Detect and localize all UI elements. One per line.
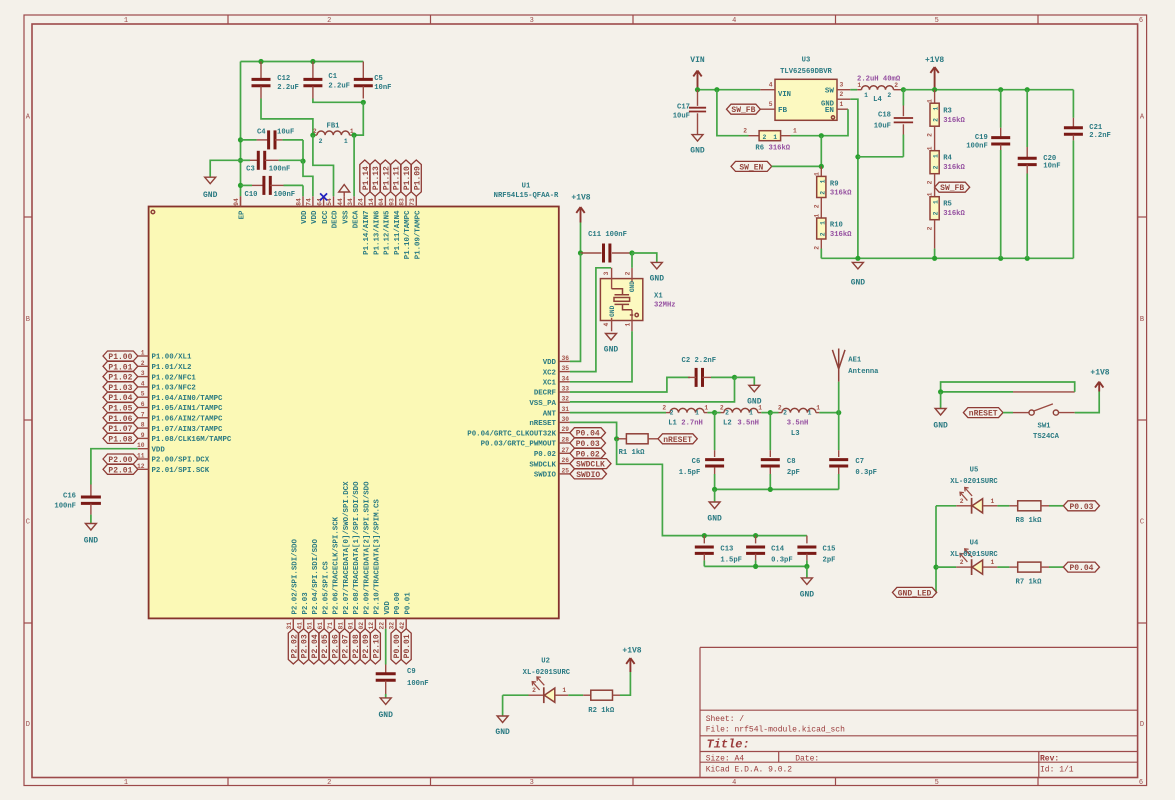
capacitor C11 (581, 231, 633, 263)
svg-text:SW: SW (825, 87, 835, 95)
svg-text:1: 1 (933, 107, 940, 111)
svg-text:P1.14/AIN7: P1.14/AIN7 (363, 211, 371, 255)
svg-text:P1.03: P1.03 (108, 384, 132, 393)
global label P1.05 (103, 403, 138, 414)
svg-text:GND: GND (690, 147, 705, 156)
svg-text:SWDIO: SWDIO (534, 472, 557, 480)
resistor R9 (813, 166, 852, 208)
wire VDD pin10 to C16 (91, 449, 138, 485)
global label P0.01 (401, 629, 412, 664)
svg-text:C7: C7 (855, 458, 864, 466)
svg-text:5: 5 (769, 101, 773, 108)
wire +1V8 down to C11 (580, 223, 582, 254)
wire R6 to EN (791, 109, 849, 136)
U1 pin 28 P0.03/GRTC_PWMOUT (481, 437, 570, 449)
svg-text:R8 1kΩ: R8 1kΩ (1016, 517, 1043, 525)
U1 pin 25 SWDIO (534, 467, 570, 479)
svg-text:1: 1 (773, 134, 777, 141)
svg-text:33: 33 (562, 386, 570, 393)
svg-text:SWDCLK: SWDCLK (529, 461, 556, 469)
U1 pin 8 P1.07/AIN3/TAMPC (138, 422, 223, 434)
svg-text:D: D (1140, 721, 1144, 729)
wire EN node down to SW_EN (820, 136, 822, 167)
svg-text:XL-0201SURC: XL-0201SURC (950, 478, 998, 486)
wire VSS_PA (570, 377, 735, 402)
capacitor C18 (874, 90, 913, 157)
svg-text:54: 54 (326, 198, 333, 206)
global label nRESET (SW1) (963, 408, 1003, 419)
wire FB1 pin2 to pin45 DECD (313, 135, 334, 196)
svg-text:P0.01: P0.01 (404, 592, 412, 615)
svg-text:10uF: 10uF (673, 112, 690, 120)
svg-text:1: 1 (808, 410, 812, 417)
svg-text:4: 4 (141, 380, 145, 387)
ground label (C17) (690, 147, 705, 156)
junction R3 top (932, 87, 937, 92)
wire R10 to gnd rail (820, 239, 822, 258)
global label SWDCLK (570, 459, 611, 470)
ground symbol (filter) (709, 502, 720, 509)
wire C5 bottom to FB1 pin1 (354, 102, 363, 135)
U1 pin 39 P1.11/AIN4 (top) (388, 196, 402, 255)
U1 pin 18 P2.07/TRACEDATA[0]/SWO/SPI.DCX (bottom) (337, 481, 351, 630)
junction R1 node (614, 436, 619, 441)
global label P0.04 (570, 428, 606, 439)
svg-text:FB1: FB1 (327, 123, 341, 131)
junction U4 row (933, 565, 938, 570)
svg-text:A: A (1140, 114, 1145, 122)
svg-text:100nF: 100nF (966, 142, 988, 150)
svg-text:2: 2 (960, 559, 964, 566)
svg-text:X1: X1 (654, 293, 663, 301)
svg-text:GND_LED: GND_LED (898, 589, 932, 598)
wire SW1 to +1V8 (1075, 392, 1100, 413)
ground symbol (SW1) (935, 409, 946, 416)
wire VDD pin22 to C9 (385, 629, 387, 665)
svg-text:GND: GND (650, 275, 665, 284)
wire crystal pin2 up (631, 253, 633, 268)
svg-text:P2.02: P2.02 (290, 634, 299, 658)
led U4 (936, 549, 997, 575)
svg-text:P0.02: P0.02 (534, 451, 556, 459)
svg-text:0.3pF: 0.3pF (855, 469, 877, 477)
svg-text:P1.09/TAMPC: P1.09/TAMPC (415, 210, 423, 259)
U1 pin 45 DECD (top) (326, 196, 340, 228)
U1 pin 42 P1.14/AIN7 (top) (358, 196, 372, 255)
global label SW_FB (U3) (727, 104, 761, 115)
junction VIN R6 branch (714, 87, 719, 92)
svg-text:81: 81 (337, 622, 344, 630)
wire C6 top (714, 413, 716, 451)
svg-text:P0.04/GRTC_CLKOUT32K: P0.04/GRTC_CLKOUT32K (467, 430, 556, 438)
capacitor C19 (966, 90, 1010, 259)
svg-text:36: 36 (562, 355, 570, 362)
svg-text:File: nrf54l-module.kicad_sch: File: nrf54l-module.kicad_sch (706, 726, 845, 735)
svg-text:24: 24 (358, 198, 365, 206)
capacitor C6 (679, 450, 724, 489)
svg-text:R4: R4 (943, 155, 952, 163)
svg-text:71: 71 (327, 622, 334, 630)
U1 pin 4 P1.03/NFC2 (138, 380, 196, 392)
junction C2 right (732, 375, 737, 380)
capacitor C10 (241, 176, 304, 199)
svg-text:41: 41 (296, 622, 303, 630)
global label P0.00 (391, 629, 402, 664)
svg-text:TLV62569DBVR: TLV62569DBVR (780, 68, 832, 76)
svg-text:1.5pF: 1.5pF (679, 469, 701, 477)
global label P0.03 (570, 438, 606, 449)
ic U3 reference (802, 57, 811, 65)
inductor L2 (715, 405, 771, 428)
svg-text:6: 6 (141, 401, 145, 408)
junction C3 C4 node (300, 159, 305, 164)
U1 pin 9 P1.08/CLK16M/TAMPC (138, 432, 232, 444)
U1 pin 13 P2.02/SPI.SDI/SDO (bottom) (286, 539, 300, 630)
svg-text:2: 2 (778, 405, 782, 412)
global label P1.11 (391, 160, 402, 196)
svg-text:C13: C13 (720, 545, 733, 553)
global label SWDIO (570, 469, 607, 480)
svg-text:P0.04: P0.04 (1069, 564, 1093, 573)
svg-text:316kΩ: 316kΩ (943, 117, 965, 125)
svg-text:3: 3 (840, 82, 844, 89)
U1 pin 31 ANT (543, 406, 570, 418)
svg-text:P1.06/AIN2/TAMPC: P1.06/AIN2/TAMPC (152, 416, 224, 424)
junction gnd tap supply (855, 256, 860, 261)
svg-text:91: 91 (348, 622, 355, 630)
svg-text:R1 1kΩ: R1 1kΩ (619, 449, 646, 457)
svg-text:DCC: DCC (322, 210, 330, 224)
svg-text:P1.07/AIN3/TAMPC: P1.07/AIN3/TAMPC (152, 426, 224, 434)
U1 pin 12 P2.01/SPI.SCK (137, 463, 210, 475)
svg-text:U3: U3 (802, 57, 811, 65)
junction C19 gnd (998, 256, 1003, 261)
svg-text:P2.07/TRACEDATA[0]/SWO/SPI.DCX: P2.07/TRACEDATA[0]/SWO/SPI.DCX (343, 481, 351, 615)
resistor R3 (927, 90, 966, 137)
svg-text:316kΩ: 316kΩ (943, 164, 965, 172)
U1 pin 48 VDD (top) (296, 196, 310, 224)
svg-text:1: 1 (864, 92, 868, 99)
ground label (X1) (604, 346, 619, 355)
svg-text:EN: EN (825, 107, 835, 115)
svg-text:DECD: DECD (332, 210, 340, 228)
svg-text:GND: GND (629, 281, 636, 292)
wire SW1 top loop (941, 382, 1075, 392)
ground symbol (U2) (497, 716, 508, 723)
U3 pin 4 VIN stub (760, 82, 775, 90)
svg-text:TS24CA: TS24CA (1033, 433, 1060, 441)
power symbol VIN (690, 56, 705, 90)
svg-text:P0.03/GRTC_PWMOUT: P0.03/GRTC_PWMOUT (481, 441, 557, 449)
led U4 reference (970, 540, 979, 548)
U1 pin 36 VDD (543, 355, 570, 367)
svg-text:GND: GND (851, 279, 866, 288)
svg-text:SWDIO: SWDIO (576, 471, 600, 480)
svg-text:22: 22 (378, 622, 385, 630)
svg-text:04: 04 (378, 198, 385, 206)
wire supply gnd rail (821, 257, 1073, 259)
svg-text:P1.02/NFC1: P1.02/NFC1 (152, 374, 197, 382)
junction C18 gnd row (855, 154, 860, 159)
junction C19 top (998, 87, 1003, 92)
svg-text:P1.01: P1.01 (108, 363, 132, 372)
wire C3C4 to pin47 VDD (303, 161, 313, 196)
svg-text:P2.04: P2.04 (311, 634, 320, 658)
svg-text:2.2uH 40mΩ: 2.2uH 40mΩ (857, 75, 901, 83)
U1 pin 17 P2.06/TRACECLK/SPI.SCK (bottom) (327, 516, 341, 629)
svg-text:VIN: VIN (690, 56, 705, 65)
svg-text:100nF: 100nF (269, 166, 291, 174)
wire C9 to gnd (385, 694, 387, 698)
wire C18 bottom link (858, 156, 904, 158)
U1 pin 3 P1.02/NFC1 (138, 370, 197, 382)
capacitor C17 (673, 90, 706, 135)
svg-text:R10: R10 (830, 222, 843, 230)
ic U1 reference (522, 183, 531, 191)
wire gnd tap load caps (806, 566, 808, 578)
svg-text:2: 2 (783, 410, 787, 417)
U1 pin 16 P2.05/SPI.CS (bottom) (317, 561, 331, 630)
svg-text:1: 1 (124, 779, 128, 787)
global label P1.12 (380, 160, 391, 196)
svg-text:C10: C10 (245, 191, 258, 199)
wire GND top rail (241, 61, 364, 63)
global label P2.08 (350, 629, 361, 664)
wire load caps gnd rail (704, 565, 807, 567)
capacitor C5 (354, 62, 392, 99)
svg-text:0.3pF: 0.3pF (771, 557, 793, 565)
svg-text:GND: GND (84, 537, 99, 546)
ground label (supply) (851, 279, 866, 288)
junction C10 row (238, 183, 243, 188)
global label P1.13 (370, 160, 381, 196)
svg-text:P1.03/NFC2: P1.03/NFC2 (152, 385, 196, 393)
svg-text:1: 1 (749, 410, 753, 417)
svg-text:28: 28 (562, 437, 570, 444)
U1 pin 43 DECA (top) (347, 196, 361, 228)
ground label (top-left) (203, 191, 218, 200)
wire C4 right down (302, 140, 304, 161)
global label P1.01 (103, 361, 138, 372)
svg-text:93: 93 (388, 198, 395, 206)
svg-text:GND: GND (495, 728, 510, 737)
U1 pin 34 XC1 (543, 375, 570, 387)
svg-text:C19: C19 (975, 134, 988, 142)
svg-text:2: 2 (840, 91, 844, 98)
global label P2.06 (329, 629, 340, 664)
svg-text:XC2: XC2 (543, 369, 556, 377)
resistor R7 (997, 562, 1063, 586)
svg-text:100nF: 100nF (407, 680, 429, 688)
U1 pin 2 P1.01/XL2 (138, 360, 192, 372)
wire SW1 gnd (940, 392, 942, 409)
wire R5 to gnd rail (934, 220, 936, 259)
svg-text:C3: C3 (246, 166, 255, 174)
svg-text:1: 1 (819, 221, 826, 225)
svg-text:2: 2 (532, 687, 536, 694)
svg-text:84: 84 (296, 198, 303, 206)
svg-text:+1V8: +1V8 (622, 647, 641, 656)
title block (700, 647, 1138, 777)
svg-text:P0.00: P0.00 (394, 592, 402, 615)
svg-text:1: 1 (695, 410, 699, 417)
svg-text:1: 1 (562, 687, 566, 694)
svg-text:30: 30 (562, 416, 570, 423)
junction C13 top (702, 533, 707, 538)
svg-text:6: 6 (1139, 779, 1143, 787)
svg-text:12: 12 (368, 622, 375, 630)
svg-text:XL-0201SURC: XL-0201SURC (523, 669, 571, 677)
svg-text:GND: GND (604, 346, 619, 355)
svg-text:VDD: VDD (311, 210, 319, 224)
ground label (load caps) (800, 590, 815, 599)
svg-text:31: 31 (286, 622, 293, 630)
svg-text:2: 2 (624, 271, 631, 275)
svg-text:P1.09: P1.09 (413, 166, 422, 190)
svg-text:VIN: VIN (778, 91, 791, 99)
svg-text:4: 4 (732, 17, 736, 25)
ground label (filter) (707, 515, 722, 524)
junction C5 bottom (361, 100, 366, 105)
U1 pin 22 VDD (bottom) (378, 601, 392, 630)
ic U1 body NRF54L15-QFAA-R (149, 207, 559, 619)
inductor L1 (662, 405, 714, 428)
ground symbol (C16) (85, 524, 96, 531)
crystal X1 value (654, 302, 676, 310)
U1 pin 11 P2.00/SPI.DCX (137, 453, 210, 465)
svg-text:1: 1 (840, 101, 844, 108)
svg-text:L4: L4 (873, 96, 882, 104)
crystal X1 body (600, 268, 642, 332)
svg-text:4: 4 (769, 82, 773, 89)
svg-text:P2.08: P2.08 (352, 634, 361, 658)
svg-text:2: 2 (319, 138, 323, 145)
junction L4 out (901, 87, 906, 92)
svg-text:1: 1 (927, 99, 934, 103)
junction C6 gnd (712, 487, 717, 492)
capacitor C14 (746, 536, 793, 567)
global label GND_LED (892, 587, 936, 598)
svg-text:1: 1 (819, 179, 826, 183)
ground symbol (X1 pin4) (606, 334, 617, 341)
svg-text:C: C (1140, 519, 1144, 527)
U1 pin 19 P2.08/TRACEDATA[1]/SPI.SDI/SDO (bottom) (348, 481, 362, 630)
svg-text:SW_FB: SW_FB (940, 184, 964, 193)
svg-text:9: 9 (141, 432, 145, 439)
svg-text:+1V8: +1V8 (925, 56, 944, 65)
svg-text:VDD: VDD (152, 446, 166, 454)
svg-text:+1V8: +1V8 (571, 194, 590, 203)
svg-text:P1.01/XL2: P1.01/XL2 (152, 364, 192, 372)
svg-text:VSS: VSS (342, 210, 350, 224)
U1 pin 37 P1.09/TAMPC (top) (409, 196, 423, 259)
svg-text:316kΩ: 316kΩ (830, 189, 852, 197)
svg-text:2: 2 (743, 128, 747, 135)
svg-text:27: 27 (562, 447, 570, 454)
led U5 value (950, 478, 998, 486)
ground label (C9) (378, 711, 393, 720)
wire SW_EN to R9 (772, 165, 822, 167)
led U5 (936, 488, 997, 514)
junction SW_EN R9 (819, 164, 824, 169)
capacitor C2 (682, 357, 735, 387)
global label P1.03 (103, 382, 138, 393)
antenna AE1 value (848, 368, 879, 376)
capacitor C9 (376, 665, 429, 695)
svg-text:P0.02: P0.02 (576, 450, 600, 459)
ground symbol (C11) (651, 262, 662, 269)
svg-text:P2.09/TRACEDATA[2]/SPI.SDI/SDO: P2.09/TRACEDATA[2]/SPI.SDI/SDO (363, 481, 371, 615)
svg-text:10: 10 (137, 442, 145, 449)
svg-text:74: 74 (306, 198, 313, 206)
antenna AE1 (832, 349, 845, 382)
svg-text:73: 73 (409, 198, 416, 206)
svg-text:P1.11/AIN4: P1.11/AIN4 (394, 210, 402, 255)
svg-text:Rev:: Rev: (1040, 755, 1059, 764)
svg-text:Date:: Date: (795, 755, 819, 764)
svg-text:nRESET: nRESET (969, 410, 998, 419)
junction C8 gnd (768, 487, 773, 492)
svg-text:Antenna: Antenna (848, 368, 879, 376)
U1 pin 41 P1.13/AIN6 (top) (368, 196, 382, 255)
svg-text:2.2nF: 2.2nF (1089, 132, 1111, 140)
svg-text:3: 3 (603, 271, 610, 275)
svg-text:35: 35 (562, 365, 570, 372)
junction R5 gnd (932, 256, 937, 261)
global label P2.02 (288, 629, 299, 664)
svg-text:KiCad E.D.A. 9.0.2: KiCad E.D.A. 9.0.2 (706, 766, 793, 775)
capacitor C15 (797, 536, 835, 567)
svg-text:GND: GND (203, 191, 218, 200)
svg-text:34: 34 (562, 375, 570, 382)
svg-text:D: D (26, 721, 30, 729)
wire C7 top (838, 413, 840, 451)
svg-text:100nF: 100nF (274, 191, 296, 199)
wire C16 to gnd (90, 515, 92, 524)
svg-text:2: 2 (327, 17, 331, 25)
global label P2.01 (103, 464, 138, 475)
junction C1 top (310, 59, 315, 64)
svg-text:29: 29 (562, 426, 570, 433)
svg-text:C11 100nF: C11 100nF (588, 231, 627, 239)
junction C20 gnd (1025, 256, 1030, 261)
svg-text:nRESET: nRESET (663, 436, 692, 445)
capacitor C21 (1064, 90, 1111, 259)
svg-text:ANT: ANT (543, 410, 557, 418)
svg-text:2.7nH: 2.7nH (681, 419, 703, 427)
svg-text:C9: C9 (407, 668, 416, 676)
svg-text:C2 2.2nF: C2 2.2nF (682, 357, 717, 365)
svg-text:7: 7 (141, 411, 145, 418)
crystal X1 reference (654, 293, 663, 301)
global label P2.03 (299, 629, 310, 664)
svg-text:1: 1 (991, 559, 995, 566)
svg-text:2pF: 2pF (823, 557, 836, 565)
svg-text:GND: GND (800, 590, 815, 599)
U1 pin 23 P0.00 (bottom) (389, 592, 403, 630)
resistor R8 (997, 501, 1063, 525)
U3 pin 5 FB stub (760, 101, 775, 109)
wire GND left vertical to EP (240, 62, 242, 197)
junction L2-L3 (768, 410, 773, 415)
svg-text:GND: GND (609, 305, 616, 316)
svg-text:VDD: VDD (384, 601, 392, 615)
svg-text:P1.00/XL1: P1.00/XL1 (152, 354, 192, 362)
svg-text:R6: R6 (755, 144, 764, 152)
svg-text:3: 3 (530, 779, 534, 787)
svg-text:5: 5 (935, 17, 939, 25)
wire R6 loop (717, 90, 749, 136)
